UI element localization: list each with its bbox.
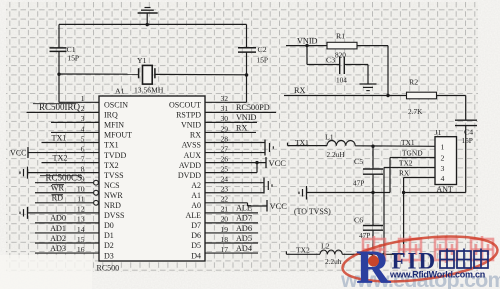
value 2.2uH (L1) xyxy=(327,150,346,159)
pin 10 inverter bubble xyxy=(94,190,99,195)
ground (pin12 DVSS, pointing left) xyxy=(20,207,28,219)
svg-text:D6: D6 xyxy=(191,231,201,240)
node TX1/C5 junction xyxy=(371,145,374,148)
ground (pin8 TVSS, pointing left) xyxy=(20,167,28,179)
label J1 xyxy=(435,128,442,137)
pin label DVDD (pin 25) xyxy=(178,171,201,180)
connector J1 body xyxy=(435,137,457,185)
power VCC (pins 26/25) xyxy=(266,157,286,168)
wire C3 branch xyxy=(307,46,340,65)
pin label NRD (pin 11) xyxy=(104,201,121,210)
label C5 xyxy=(354,157,363,166)
svg-text:J1: J1 xyxy=(435,128,442,137)
wire pin19 D6 xyxy=(205,232,258,234)
svg-text:RC500PD: RC500PD xyxy=(236,103,270,112)
svg-text:VCC: VCC xyxy=(10,148,26,157)
wire pin20 D7 xyxy=(205,222,258,224)
pin label A2 (pin 24) xyxy=(191,181,201,190)
net RD label xyxy=(52,194,64,203)
node TX2/C6 junction xyxy=(371,253,374,256)
svg-text:3: 3 xyxy=(441,164,445,173)
value 104 (C3) xyxy=(336,76,347,85)
ground (pins 28/27, pointing right) xyxy=(265,140,273,156)
pin label D3 (pin 16) xyxy=(104,251,114,260)
wire pin18 D5 xyxy=(205,242,258,244)
net TGND label (J1 pin2) xyxy=(402,148,423,157)
wire pin30 VNID xyxy=(205,121,257,123)
wire OSCIN vertical xyxy=(58,74,60,102)
svg-text:AD0: AD0 xyxy=(50,214,66,223)
wire pin6 TVDD xyxy=(28,152,99,154)
ground (TO TVSS, pointing left) xyxy=(299,186,307,200)
wire C6 top stem xyxy=(372,193,374,226)
svg-text:RC500: RC500 xyxy=(97,264,120,273)
svg-text:TX1: TX1 xyxy=(104,141,119,150)
value 47P (C6) xyxy=(359,231,370,240)
pin label AUX (pin 27) xyxy=(184,151,202,160)
wire RX rail xyxy=(284,95,407,97)
wire VNID rail xyxy=(286,45,327,47)
svg-text:R2: R2 xyxy=(409,78,418,87)
pin label OSCIN (pin 1) xyxy=(104,101,128,110)
wire J1 pin2 TGND xyxy=(390,158,435,193)
wire pin16 D3 xyxy=(35,252,99,254)
net TX2 label (antenna side) xyxy=(296,246,310,255)
pin number 2 (J1) xyxy=(441,153,445,162)
node AVDD junction xyxy=(255,161,258,164)
pin number 8 xyxy=(81,164,85,173)
wire C4 to antenna node xyxy=(465,126,467,193)
pin label MFOUT (pin 4) xyxy=(104,131,132,140)
value 15P (C4) xyxy=(462,136,473,145)
svg-text:ALE: ALE xyxy=(185,211,201,220)
svg-text:A1: A1 xyxy=(115,87,125,96)
wire pin17 D4 xyxy=(205,252,258,254)
label C4 xyxy=(464,128,473,137)
capacitor C4 xyxy=(455,120,477,125)
svg-text:15P: 15P xyxy=(462,136,473,145)
wire pin28 AVSS xyxy=(205,142,265,144)
pin label D2 (pin 15) xyxy=(104,241,114,250)
pin number 27 xyxy=(221,144,229,153)
svg-text:AVDD: AVDD xyxy=(179,161,201,170)
net AD3 label xyxy=(50,244,66,253)
pin label TX2 (pin 7) xyxy=(104,161,119,170)
label L2 xyxy=(321,242,330,251)
pin label AVSS (pin 28) xyxy=(182,141,201,150)
net AD0 label xyxy=(50,214,66,223)
pin label TX1 (pin 5) xyxy=(104,141,119,150)
wire C1 top stem xyxy=(58,24,60,47)
wire TVSS rail xyxy=(307,192,391,194)
pin number 13 xyxy=(77,215,85,224)
wire pin8 TVSS xyxy=(28,172,100,174)
svg-text:RC500CS: RC500CS xyxy=(45,173,82,183)
net AD7 label xyxy=(236,214,252,223)
pin number 1 xyxy=(81,94,85,103)
inductor L2 xyxy=(320,250,342,254)
pin number 10 xyxy=(77,185,85,194)
power VCC (pin22) xyxy=(267,200,287,212)
svg-text:R1: R1 xyxy=(336,32,345,41)
pin label D7 (pin 20) xyxy=(191,221,201,230)
pin 11 inverter bubble xyxy=(94,200,99,205)
resistor R2 xyxy=(407,92,437,99)
pin label NWR (pin 10) xyxy=(104,191,123,200)
net AD6 label xyxy=(236,224,252,233)
svg-text:C1: C1 xyxy=(67,45,76,54)
power VCC (pin6) xyxy=(10,147,28,158)
net TX2 label (J1 pin3) xyxy=(399,158,413,167)
wire C3 to ground xyxy=(344,65,368,84)
wire pin13 D0 xyxy=(35,222,99,224)
wire TX2 to L2 xyxy=(286,251,320,254)
pin label AVDD (pin 26) xyxy=(179,161,201,170)
watermark pink text 电拓培训 (simplified strokes) xyxy=(363,236,493,263)
wire pin11 NRD xyxy=(35,202,93,204)
pin number 11 xyxy=(77,195,85,204)
label R2 xyxy=(409,78,418,87)
svg-text:C3: C3 xyxy=(326,56,335,65)
svg-text:AD7: AD7 xyxy=(236,214,252,223)
value 2.7K (R2) xyxy=(408,107,423,116)
pin number 4 (J1) xyxy=(441,174,445,183)
pin label MFIN (pin 3) xyxy=(104,121,124,130)
value 820 (R1) xyxy=(335,51,346,60)
pin number 9 xyxy=(81,175,85,184)
pin number 21 xyxy=(221,205,229,214)
pin number 14 xyxy=(77,225,85,234)
svg-text:C2: C2 xyxy=(258,45,267,54)
label C3 xyxy=(326,56,335,65)
ground (C3, pointing down) xyxy=(360,84,377,91)
svg-text:AVSS: AVSS xyxy=(182,141,201,150)
svg-text:AD5: AD5 xyxy=(236,234,252,243)
pin number 2 xyxy=(81,104,85,113)
net AD4 label xyxy=(236,244,252,253)
svg-text:RX: RX xyxy=(399,168,410,177)
svg-text:TX1: TX1 xyxy=(51,133,66,142)
svg-text:D3: D3 xyxy=(104,251,114,260)
wire pin7 TX2 xyxy=(42,162,100,164)
pin label TVSS (pin 8) xyxy=(104,171,124,180)
wire R1 to corner xyxy=(357,45,388,47)
wire pin5 TX1 xyxy=(42,142,100,144)
wire pin14 D1 xyxy=(35,232,99,234)
net AD1 label xyxy=(50,224,66,233)
net TX1 label (J1 pin1) xyxy=(401,138,415,147)
svg-text:MFIN: MFIN xyxy=(104,121,124,130)
value 2.2uh (L2) xyxy=(325,257,342,266)
wire L1 to J1 pin1 xyxy=(355,145,435,148)
node C5/TVSS junction xyxy=(371,191,374,194)
net RX label (top) xyxy=(294,86,305,95)
pin label D0 (pin 13) xyxy=(104,221,114,230)
value 13.56MH xyxy=(134,86,164,95)
svg-text:A2: A2 xyxy=(191,181,201,190)
svg-text:A0: A0 xyxy=(191,201,201,210)
svg-text:AD6: AD6 xyxy=(236,224,252,233)
net RX label (J1 pin4) xyxy=(399,168,410,177)
svg-text:47P: 47P xyxy=(353,179,364,188)
wire pin25 DVDD xyxy=(205,163,257,173)
svg-text:TX2: TX2 xyxy=(52,153,67,162)
svg-text:15P: 15P xyxy=(68,54,80,63)
pin number 32 xyxy=(221,94,229,103)
wire crystal right xyxy=(155,73,247,75)
pin number 5 xyxy=(81,134,85,143)
wire antenna RX feed xyxy=(404,192,466,194)
net VNID label (pin30) xyxy=(236,113,257,122)
inductor L1 xyxy=(327,141,355,146)
watermark logo globe in R xyxy=(368,256,379,267)
pin label D1 (pin 14) xyxy=(104,231,114,240)
pin number 15 xyxy=(77,235,85,244)
label RC500 (below IC) xyxy=(97,264,120,273)
pin number 7 xyxy=(81,154,85,163)
svg-text:VNID: VNID xyxy=(236,113,257,122)
svg-text:13.56MH: 13.56MH xyxy=(134,86,164,95)
svg-text:ALE: ALE xyxy=(236,204,252,213)
svg-text:RX: RX xyxy=(190,131,201,140)
wire pin9 NCS xyxy=(35,182,93,184)
wire pin22 A0 xyxy=(205,203,267,206)
pin number 26 xyxy=(221,154,229,163)
svg-text:2: 2 xyxy=(441,153,445,162)
pin number 23 xyxy=(221,185,229,194)
resistor R1 xyxy=(327,42,357,49)
svg-text:OSCOUT: OSCOUT xyxy=(169,101,201,110)
svg-text:RX: RX xyxy=(294,86,305,95)
wire pin26 AVDD xyxy=(205,162,266,164)
svg-text:MFOUT: MFOUT xyxy=(104,131,132,140)
pin label OSCOUT (pin 32) xyxy=(169,101,201,110)
wire C2 top stem xyxy=(246,24,248,47)
svg-text:2.7K: 2.7K xyxy=(408,107,423,116)
svg-text:D4: D4 xyxy=(191,251,201,260)
label A1 xyxy=(115,87,125,96)
pin number 17 xyxy=(221,245,229,254)
svg-text:2.2uh: 2.2uh xyxy=(325,257,342,266)
node OSCOUT junction xyxy=(245,73,248,76)
watermark 世界网 blocks xyxy=(440,249,488,269)
pin number 19 xyxy=(221,225,229,234)
svg-text:D0: D0 xyxy=(104,221,114,230)
svg-text:www.RfidWorld.com.cn: www.RfidWorld.com.cn xyxy=(389,270,485,280)
svg-text:D1: D1 xyxy=(104,231,114,240)
svg-text:TX2: TX2 xyxy=(399,158,413,167)
capacitor C3 xyxy=(340,57,345,75)
pin number 3 (J1) xyxy=(441,164,445,173)
svg-text:15P: 15P xyxy=(257,55,269,64)
pin label A0 (pin 22) xyxy=(191,201,201,210)
svg-text:AUX: AUX xyxy=(184,151,202,160)
pin number 6 xyxy=(81,144,85,153)
svg-text:VCC: VCC xyxy=(269,158,287,168)
svg-text:NRD: NRD xyxy=(104,201,121,210)
svg-text:L2: L2 xyxy=(321,242,330,251)
svg-text:TVSS: TVSS xyxy=(104,171,124,180)
pin number 4 xyxy=(81,124,85,133)
svg-text:DVDD: DVDD xyxy=(178,171,201,180)
wire pin12 DVSS xyxy=(28,212,100,214)
net ALE label xyxy=(236,204,252,213)
wire pin29 RX xyxy=(205,131,256,133)
svg-text:D5: D5 xyxy=(191,241,201,250)
svg-text:AD4: AD4 xyxy=(236,244,252,253)
wire pin2 IRQ xyxy=(27,111,100,113)
svg-text:Y1: Y1 xyxy=(137,56,147,65)
wire pin32 OSCOUT xyxy=(205,101,247,103)
paper blank area bottom-left xyxy=(0,255,92,289)
svg-text:(TO TVSS): (TO TVSS) xyxy=(294,207,331,216)
svg-text:RSTPD: RSTPD xyxy=(176,111,201,120)
svg-text:OSCIN: OSCIN xyxy=(104,101,128,110)
watermark red ellipse swoosh xyxy=(340,229,500,289)
pin number 30 xyxy=(221,114,229,123)
node OSCIN junction xyxy=(57,73,60,76)
node RX feed junction xyxy=(402,191,405,194)
svg-text:TVDD: TVDD xyxy=(104,151,126,160)
pin number 16 xyxy=(77,245,85,254)
svg-text:TX2: TX2 xyxy=(296,246,310,255)
ground (oscillator rail, pointing up) xyxy=(138,8,158,27)
pin number 3 xyxy=(81,114,85,123)
wire crystal left xyxy=(59,73,139,75)
svg-text:2.2uH: 2.2uH xyxy=(327,150,346,159)
wire pin3 MFIN xyxy=(51,121,99,123)
label C6 xyxy=(354,216,363,225)
net RX label (pin29) xyxy=(236,123,247,132)
pin label TVDD (pin 6) xyxy=(104,151,126,160)
wire pin10 NWR xyxy=(35,192,93,194)
net AD5 label xyxy=(236,234,252,243)
capacitor C5 xyxy=(363,169,383,174)
wire pin21 ALE xyxy=(205,212,258,214)
node RX junction xyxy=(386,94,389,97)
svg-text:AD2: AD2 xyxy=(50,234,66,243)
node TX2/J1 junction xyxy=(382,253,385,256)
label ANT xyxy=(437,185,453,194)
label R1 xyxy=(336,32,345,41)
svg-text:VNID: VNID xyxy=(181,121,201,130)
wire L2 to antenna node xyxy=(342,253,403,255)
svg-text:NWR: NWR xyxy=(104,191,123,200)
wire pin1 OSCIN xyxy=(59,101,99,103)
pin number 20 xyxy=(221,215,229,224)
net TX2 label (left) xyxy=(52,153,67,162)
net TX1 label (antenna side) xyxy=(295,138,309,147)
label Y1 xyxy=(137,56,147,65)
pin number 25 xyxy=(221,164,229,173)
pin label RX (pin 29) xyxy=(190,131,201,140)
capacitor C6 xyxy=(363,226,383,231)
pin label A1 (pin 23) xyxy=(191,191,201,200)
svg-text:NCS: NCS xyxy=(104,181,120,190)
svg-text:TGND: TGND xyxy=(402,148,423,157)
net RC500PD label xyxy=(236,103,270,112)
pin number 24 xyxy=(221,175,229,184)
svg-text:AD3: AD3 xyxy=(50,244,66,253)
wire R2 to C4 xyxy=(437,96,466,120)
pin number 22 xyxy=(221,195,229,204)
svg-text:A1: A1 xyxy=(191,191,201,200)
net RC500IRQ label xyxy=(33,102,80,112)
pin label NCS (pin 9) xyxy=(104,181,120,190)
node VNID junction xyxy=(305,44,308,47)
wire pin27 AUX xyxy=(205,152,265,154)
svg-text:C6: C6 xyxy=(354,216,363,225)
value 15P (C2) xyxy=(257,55,269,64)
pin number 18 xyxy=(221,235,229,244)
pin label DVSS (pin 12) xyxy=(104,211,124,220)
value 15P (C1) xyxy=(68,54,80,63)
wire top ground rail xyxy=(59,23,247,25)
wire C6 to TX2 rail xyxy=(372,231,374,255)
wire pin15 D2 xyxy=(35,242,99,244)
svg-text:AD1: AD1 xyxy=(50,224,66,233)
pin number 12 xyxy=(77,205,85,214)
net WR label xyxy=(51,184,65,193)
pin label D5 (pin 18) xyxy=(191,241,201,250)
svg-text:RX: RX xyxy=(236,123,247,132)
wire pin31 RSTPD xyxy=(205,111,276,113)
pin number 28 xyxy=(221,134,229,143)
wire J1 pin3 TX2 xyxy=(384,168,435,255)
svg-text:TX2: TX2 xyxy=(104,161,119,170)
pin label IRQ (pin 2) xyxy=(104,111,118,120)
ground (pins 24/23, pointing right) xyxy=(264,178,272,194)
crystal Y1 xyxy=(139,65,155,84)
svg-text:D2: D2 xyxy=(104,241,114,250)
svg-text:D7: D7 xyxy=(191,221,201,230)
pin number 1 (J1) xyxy=(441,142,445,151)
svg-text:L1: L1 xyxy=(325,132,334,141)
pin label D6 (pin 19) xyxy=(191,231,201,240)
pin number 29 xyxy=(221,124,229,133)
net VNID label (top) xyxy=(297,37,318,46)
net AD2 label xyxy=(50,234,66,243)
svg-text:TX1: TX1 xyxy=(401,138,415,147)
capacitor C1 xyxy=(50,48,67,74)
wire OSCOUT vertical xyxy=(246,75,248,103)
label (TO TVSS) xyxy=(294,207,331,216)
wire C5 to TVSS rail xyxy=(372,175,374,193)
pin label VNID (pin 30) xyxy=(181,121,201,130)
wire C5 top stem xyxy=(372,146,374,168)
pin label ALE (pin 21) xyxy=(185,211,201,220)
wire pin23 A1 xyxy=(205,192,264,194)
wire J1 pin4 RX xyxy=(404,178,435,255)
capacitor C2 xyxy=(238,48,256,75)
net RC500CS label xyxy=(40,173,82,183)
svg-text:IRQ: IRQ xyxy=(104,111,118,120)
label C2 xyxy=(258,45,267,54)
svg-text:104: 104 xyxy=(336,76,347,85)
pin label D4 (pin 17) xyxy=(191,251,201,260)
net TX1 label (left) xyxy=(51,133,66,142)
wire pin4 MFOUT xyxy=(51,131,99,133)
svg-text:C5: C5 xyxy=(354,157,363,166)
svg-text:4: 4 xyxy=(441,174,445,183)
op-amp U1 IC body RC500 (A1) xyxy=(99,96,205,261)
pin number 31 xyxy=(221,104,229,113)
svg-text:1: 1 xyxy=(441,142,445,151)
wire TX1 to L1 xyxy=(288,143,328,146)
label L1 xyxy=(325,132,334,141)
svg-text:VCC: VCC xyxy=(270,201,288,211)
pin 9 inverter bubble xyxy=(94,180,99,185)
